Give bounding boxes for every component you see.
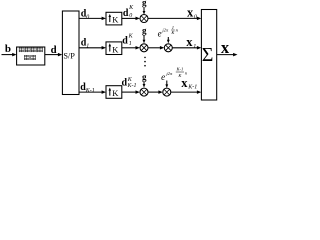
wire input arrow into mapping block bbox=[2, 53, 17, 57]
constellation mapping block U1 (Chinese label box) bbox=[17, 47, 45, 65]
node d1 label bbox=[81, 38, 90, 50]
svg-text:d: d bbox=[123, 8, 129, 19]
svg-text:K: K bbox=[112, 88, 119, 98]
wire exponential into phase multiplier row1 bbox=[167, 37, 170, 43]
S/P converter block bbox=[62, 11, 79, 95]
svg-text:g: g bbox=[142, 0, 147, 8]
wire g into multiplier row1 bbox=[143, 36, 146, 44]
pseudo glyph line1 char4 bbox=[37, 47, 43, 52]
node x1 label bbox=[186, 35, 196, 50]
svg-text:1: 1 bbox=[193, 44, 196, 50]
filter g label rowK-1 bbox=[142, 72, 147, 82]
fraction bar row1 bbox=[171, 29, 175, 31]
svg-text:j2π: j2π bbox=[165, 71, 173, 76]
svg-text:K-1: K-1 bbox=[85, 88, 95, 94]
summer block sigma bbox=[201, 10, 216, 101]
svg-text:1: 1 bbox=[86, 44, 89, 50]
svg-text:S/P: S/P bbox=[63, 51, 75, 60]
svg-text:0: 0 bbox=[129, 13, 132, 19]
wire upsampler to multiplier row0 bbox=[122, 17, 140, 21]
exponential label row1 e^{j2pi(1/K)n} bbox=[158, 25, 179, 38]
vertical ellipsis between rows bbox=[144, 57, 146, 67]
svg-text:K-1: K-1 bbox=[127, 83, 137, 89]
node x0 label bbox=[187, 5, 197, 20]
svg-text:x: x bbox=[221, 38, 230, 57]
node dK-1 label bbox=[80, 82, 95, 94]
S/P text bbox=[63, 51, 75, 60]
svg-text:x: x bbox=[186, 35, 193, 49]
upsampler K block row1 bbox=[106, 42, 122, 55]
upsampler K block row0 bbox=[106, 12, 122, 25]
node d label bbox=[51, 44, 57, 56]
node b input label bbox=[5, 43, 11, 55]
pseudo glyph line2 char2 bbox=[31, 55, 36, 60]
wire upsampler to multiplier row1 bbox=[122, 46, 140, 50]
pseudo glyph line1 char2 bbox=[25, 47, 31, 52]
wire S/P to upsampler row0 bbox=[79, 17, 106, 21]
node x output label bbox=[221, 38, 230, 57]
svg-text:Σ: Σ bbox=[202, 44, 214, 66]
multiplier M1 row0 (circle with X) bbox=[140, 15, 148, 23]
svg-text:K: K bbox=[112, 14, 119, 24]
svg-text:x: x bbox=[181, 76, 188, 90]
node xK-1 label bbox=[181, 76, 197, 91]
svg-text:e: e bbox=[158, 28, 162, 38]
svg-text:0: 0 bbox=[86, 15, 89, 21]
svg-text:K-1: K-1 bbox=[187, 85, 197, 91]
filter g label row1 bbox=[142, 25, 147, 35]
svg-text:e: e bbox=[161, 72, 165, 82]
multiplier M2 row1 (circle with X) bbox=[140, 44, 148, 52]
wire summer output x bbox=[217, 53, 238, 57]
svg-text:g: g bbox=[142, 25, 147, 35]
svg-text:1: 1 bbox=[129, 41, 132, 47]
wire exponential into phase multiplier rowK-1 bbox=[165, 81, 168, 89]
wire S/P to upsampler row1 bbox=[79, 46, 106, 50]
node dK-1^K label bbox=[122, 77, 137, 89]
svg-text:0: 0 bbox=[194, 14, 197, 20]
pseudo glyph line1 char3 bbox=[31, 47, 36, 52]
wire phase multiplier rowK-1 to summer bbox=[171, 90, 202, 94]
svg-text:j2π: j2π bbox=[161, 28, 169, 33]
svg-text:b: b bbox=[5, 43, 11, 55]
wire multiplier row0 to summer bbox=[148, 17, 201, 21]
wire g into multiplier row0 bbox=[143, 8, 146, 15]
sigma symbol bbox=[202, 44, 214, 66]
node d1^K label bbox=[122, 33, 133, 47]
exponential label rowK-1 e^{j2pi((K-1)/K)n} bbox=[161, 66, 188, 82]
wire multiplier rowK-1 to phase multiplier bbox=[148, 90, 163, 94]
svg-text:K-1: K-1 bbox=[175, 66, 183, 71]
filter g label row0 bbox=[142, 0, 147, 8]
wire upsampler to multiplier rowK-1 bbox=[122, 90, 140, 94]
node d0 label bbox=[81, 9, 90, 21]
svg-text:K: K bbox=[112, 44, 119, 54]
wire mapping block to S/P bbox=[45, 53, 63, 57]
svg-text:d: d bbox=[122, 35, 128, 46]
svg-text:g: g bbox=[142, 72, 147, 82]
pseudo glyph line1 char1 bbox=[19, 47, 25, 52]
wire S/P to upsampler rowK-1 bbox=[79, 90, 106, 94]
pseudo glyph line2 char1 bbox=[24, 55, 29, 60]
node d0^K label bbox=[123, 5, 134, 19]
wire phase multiplier row1 to summer bbox=[172, 46, 201, 50]
wire g into multiplier rowK-1 bbox=[143, 82, 146, 88]
upsampler K block rowK-1 bbox=[106, 86, 122, 99]
wire multiplier row1 to phase multiplier bbox=[148, 46, 164, 50]
fraction bar rowK-1 bbox=[176, 71, 184, 73]
multiplier M3 rowK-1 (circle with X) bbox=[140, 88, 148, 96]
phase multiplier P2 rowK-1 (circle with X) bbox=[163, 88, 171, 96]
phase multiplier P1 row1 (circle with X) bbox=[164, 44, 172, 52]
